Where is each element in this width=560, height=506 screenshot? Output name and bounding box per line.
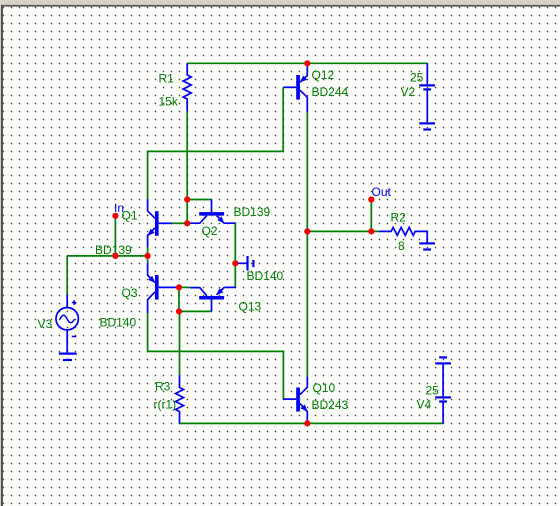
ground (V3) <box>59 354 77 360</box>
svg-text:V3: V3 <box>38 317 53 331</box>
transistor Q3 <box>148 262 177 313</box>
svg-text:R1: R1 <box>159 71 175 85</box>
wire Q1 emitter to Q3 emitter <box>147 247 149 262</box>
wire Q1 base to node <box>172 222 187 224</box>
junction (179,311) <box>176 308 182 314</box>
junction (235,263) <box>232 260 238 266</box>
bias battery stub at emitter node <box>235 256 253 271</box>
svg-text:R3: R3 <box>155 380 171 394</box>
wire node to Q2 base <box>187 199 211 201</box>
svg-text:r(r1): r(r1) <box>154 398 177 412</box>
svg-text:V4: V4 <box>417 398 432 412</box>
battery V2 <box>419 63 435 129</box>
value r(r1) <box>154 398 177 412</box>
wire Q3 base to bias column <box>177 286 190 288</box>
wire Out stub <box>370 200 372 232</box>
resistor R1 <box>183 63 191 111</box>
label Q10 <box>313 381 336 395</box>
value BD243 <box>312 398 349 412</box>
svg-text:BD139: BD139 <box>234 205 271 219</box>
label R2 <box>391 211 407 225</box>
wire R1 bottom to node and Q2 base column <box>186 111 188 223</box>
junction (187,199) <box>184 196 190 202</box>
svg-text:BD243: BD243 <box>312 398 349 412</box>
wire to R3 <box>179 311 181 375</box>
wire In stub <box>114 216 116 256</box>
junction (307,231) <box>304 228 310 234</box>
svg-text:R2: R2 <box>391 211 407 225</box>
svg-text:Q12: Q12 <box>312 68 335 82</box>
resistor R3 <box>176 375 184 423</box>
transistor Q13 <box>190 287 236 311</box>
node dot Out (371,199) <box>368 196 374 202</box>
value BD139 (Q1) <box>95 243 132 257</box>
junction (179,287) <box>176 284 182 290</box>
wire bias column vertical <box>178 287 180 311</box>
junction (307,63) <box>304 60 310 66</box>
wire to Q13 base <box>179 310 212 312</box>
wire bottom rail <box>180 422 444 424</box>
junction (115,255) <box>112 253 118 259</box>
label Q12 <box>312 68 335 82</box>
value BD140 (Q3) <box>100 316 137 330</box>
ground (R2) <box>419 243 435 249</box>
junction (371,231) <box>368 228 374 234</box>
value 15k <box>159 94 179 108</box>
value 25 (V4) <box>426 384 440 398</box>
label Q13 <box>239 300 262 314</box>
junction (187,223) <box>184 220 190 226</box>
node In <box>114 201 124 215</box>
svg-text:Q13: Q13 <box>239 300 262 314</box>
svg-text:15k: 15k <box>159 94 179 108</box>
svg-text:25: 25 <box>410 70 424 84</box>
svg-text:Out: Out <box>372 185 392 199</box>
transistor Q12 <box>283 63 307 112</box>
transistor Q2 <box>188 200 236 224</box>
label V2 <box>401 85 416 99</box>
svg-text:Q2: Q2 <box>202 224 218 238</box>
value 25 (V2) <box>410 70 424 84</box>
node dot In (115,215) <box>112 213 118 219</box>
wire input rail <box>67 255 147 257</box>
label R3 <box>155 380 171 394</box>
transistor Q1 <box>148 199 172 247</box>
resistor R2 <box>379 227 427 242</box>
label V4 <box>417 398 432 412</box>
junction (307,423) <box>304 420 310 426</box>
transistor Q10 <box>283 377 307 423</box>
svg-text:Q10: Q10 <box>313 381 336 395</box>
wire Q3 collector to Q10 base <box>148 313 284 399</box>
value BD139 (Q2) <box>234 205 271 219</box>
value BD140 (Q13) <box>247 269 284 283</box>
value 8 <box>398 239 405 253</box>
battery V4 <box>435 357 451 423</box>
svg-text:Q3: Q3 <box>122 286 138 300</box>
junction (147,255) <box>145 253 151 259</box>
label Q3 <box>122 286 138 300</box>
label Q2 <box>202 224 218 238</box>
label Q1 <box>122 209 138 223</box>
svg-text:BD140: BD140 <box>247 269 284 283</box>
wire Q12 base to Q1 collector <box>148 87 284 199</box>
wire Q12 collector down through out node to Q10 collector <box>306 112 308 377</box>
label R1 <box>159 71 175 85</box>
svg-text:BD140: BD140 <box>100 316 137 330</box>
svg-text:BD244: BD244 <box>312 85 349 99</box>
wire top rail from R1 to V2 <box>187 62 427 64</box>
label V3 <box>38 317 53 331</box>
wire output rail <box>307 230 379 232</box>
value BD244 <box>312 85 349 99</box>
svg-text:25: 25 <box>426 384 440 398</box>
wire Q2 emitter to Q13 emitter column <box>234 223 236 287</box>
svg-text:8: 8 <box>398 239 405 253</box>
node Out <box>372 185 392 199</box>
wire V3 to input rail <box>66 256 68 295</box>
svg-text:V2: V2 <box>401 85 416 99</box>
source V3 <box>56 295 78 353</box>
